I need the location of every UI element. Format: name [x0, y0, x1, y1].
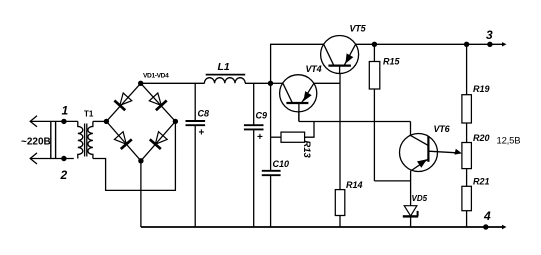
node rectifier output [268, 81, 273, 86]
wire base bus [299, 121, 411, 123]
node 1 [61, 119, 66, 124]
svg-text:3: 3 [486, 28, 493, 42]
transformer core [84, 124, 86, 157]
transistor VT5 [321, 36, 359, 74]
transistor VT6 [400, 134, 438, 172]
resistor R13 [281, 132, 305, 142]
transformer T1 primary winding [78, 121, 83, 158]
svg-text:C8: C8 [198, 108, 210, 118]
capacitor C10 [262, 170, 281, 172]
potentiometer R20 [462, 143, 472, 169]
wire node down [270, 83, 272, 171]
svg-text:VT4: VT4 [306, 64, 322, 74]
zener diode VD5 [404, 206, 417, 216]
input terminal arrow bottom [30, 153, 37, 164]
svg-text:C9: C9 [256, 111, 268, 121]
resistor R19 [466, 44, 468, 94]
node bridge bottom [138, 158, 143, 163]
wire node to VT5 collector [271, 44, 324, 83]
connector bars [50, 121, 52, 158]
svg-text:R20: R20 [473, 133, 490, 143]
wire [30, 158, 74, 160]
node bridge left [104, 119, 109, 124]
wire R20-R21 [466, 169, 468, 187]
svg-text:~220B: ~220B [21, 137, 51, 148]
diode VD2 (upper-right) [141, 83, 176, 121]
transformer T1 secondary winding [88, 121, 93, 158]
wire VT5 base / R14 [339, 74, 341, 190]
wire mid rail [141, 82, 205, 84]
wire VT4 base [298, 112, 300, 122]
wire [30, 120, 78, 122]
node terminal 4 [483, 224, 488, 229]
wire secondary bottom jog [93, 121, 175, 190]
node bridge right [173, 119, 178, 124]
wire secondary top [93, 120, 107, 122]
svg-text:C10: C10 [273, 159, 290, 169]
terminal 3 end [502, 42, 507, 46]
svg-text:+: + [257, 132, 263, 143]
svg-text:R13: R13 [301, 140, 312, 158]
diode VD3 (lower-left) [106, 121, 140, 160]
node terminal 3 [487, 42, 492, 47]
svg-text:VD1-VD4: VD1-VD4 [143, 73, 169, 80]
svg-text:VT6: VT6 [434, 124, 451, 134]
svg-text:R14: R14 [346, 180, 363, 190]
svg-text:12,5B: 12,5B [497, 136, 521, 147]
wire R19-R20 [466, 123, 468, 143]
svg-text:T1: T1 [84, 110, 94, 119]
capacitor C8 [194, 83, 196, 121]
wire top rail [356, 43, 504, 45]
capacitor C9 [253, 83, 255, 125]
input terminal arrow top [30, 116, 37, 127]
node R15 top [372, 42, 377, 47]
wire bottom rail [141, 226, 504, 228]
wire VT6 collector [410, 122, 412, 136]
diode VD4 (lower-right) [141, 121, 176, 160]
svg-text:1: 1 [62, 104, 69, 118]
transistor VT4 [280, 75, 317, 112]
svg-text:R19: R19 [473, 84, 490, 94]
terminal 4 end [502, 225, 507, 229]
node bridge top [138, 81, 143, 86]
wire VT4 emitter [314, 82, 340, 84]
svg-text:2: 2 [60, 168, 68, 182]
svg-text:R21: R21 [473, 177, 490, 187]
svg-text:VT5: VT5 [350, 23, 367, 33]
resistor R14 [335, 190, 345, 216]
resistor R15 [373, 44, 375, 61]
svg-text:4: 4 [483, 209, 491, 223]
svg-text:+: + [199, 128, 205, 139]
node 2 [61, 156, 66, 161]
wire bridge bottom to rail [140, 161, 142, 227]
inductor L1 [204, 78, 245, 84]
svg-text:L1: L1 [218, 61, 230, 73]
node R19 top [464, 42, 469, 47]
wire to VT4 [271, 82, 283, 84]
svg-text:VD5: VD5 [412, 194, 428, 203]
wire R13 jog [305, 122, 314, 138]
svg-text:R15: R15 [383, 57, 401, 67]
resistor R21 [462, 186, 472, 210]
wire R15 to VD5 [374, 180, 410, 182]
diode VD1 (upper-left) [106, 83, 140, 121]
wire VT6 emitter [410, 171, 412, 206]
